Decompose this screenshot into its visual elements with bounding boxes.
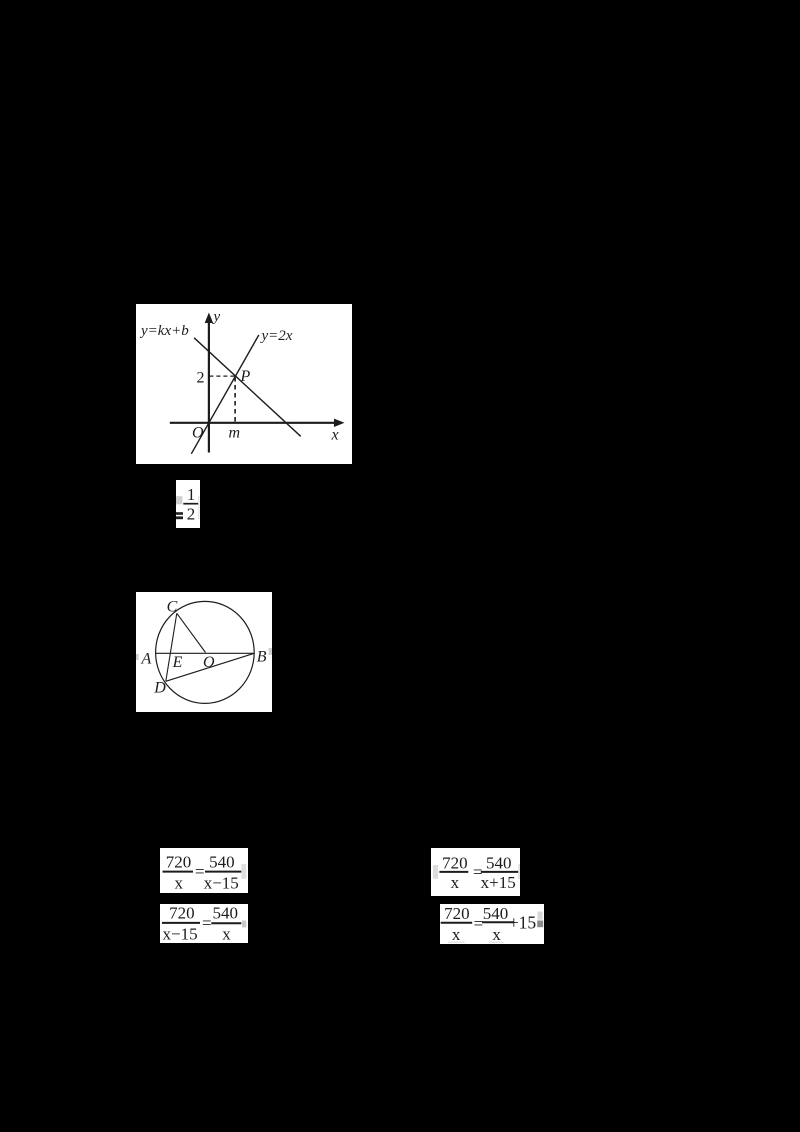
svg-text:540: 540 bbox=[209, 853, 235, 872]
svg-text:y=kx+b: y=kx+b bbox=[139, 323, 189, 339]
svg-text:x−15: x−15 bbox=[163, 924, 198, 942]
svg-text:x: x bbox=[451, 873, 460, 892]
svg-text:y=2x: y=2x bbox=[260, 328, 293, 344]
svg-text:540: 540 bbox=[213, 904, 239, 923]
svg-text:P: P bbox=[240, 368, 251, 385]
svg-text:B: B bbox=[257, 649, 267, 666]
svg-text:720: 720 bbox=[169, 904, 195, 923]
svg-text:1: 1 bbox=[187, 485, 196, 504]
svg-text:y: y bbox=[212, 309, 221, 325]
svg-text:720: 720 bbox=[442, 853, 468, 872]
svg-text:2: 2 bbox=[187, 504, 196, 523]
svg-text:x: x bbox=[331, 427, 339, 444]
svg-text:2: 2 bbox=[197, 369, 205, 386]
svg-text:A: A bbox=[141, 651, 152, 668]
svg-text:720: 720 bbox=[444, 904, 470, 923]
svg-text:720: 720 bbox=[166, 853, 192, 872]
svg-text:D: D bbox=[153, 680, 166, 697]
svg-text:O: O bbox=[203, 654, 215, 671]
svg-text:O: O bbox=[192, 425, 204, 442]
svg-text:C: C bbox=[167, 599, 178, 616]
svg-text:E: E bbox=[172, 654, 183, 671]
svg-text:x: x bbox=[222, 924, 231, 942]
svg-text:=: = bbox=[202, 914, 212, 933]
svg-text:m: m bbox=[229, 425, 241, 442]
svg-text:x: x bbox=[175, 873, 184, 892]
svg-text:x: x bbox=[492, 925, 501, 944]
svg-text:x+15: x+15 bbox=[481, 873, 516, 892]
svg-text:x−15: x−15 bbox=[204, 873, 239, 892]
svg-text:540: 540 bbox=[482, 904, 508, 923]
svg-text:x: x bbox=[451, 925, 460, 944]
svg-text:+15: +15 bbox=[508, 913, 536, 933]
svg-text:540: 540 bbox=[486, 853, 512, 872]
